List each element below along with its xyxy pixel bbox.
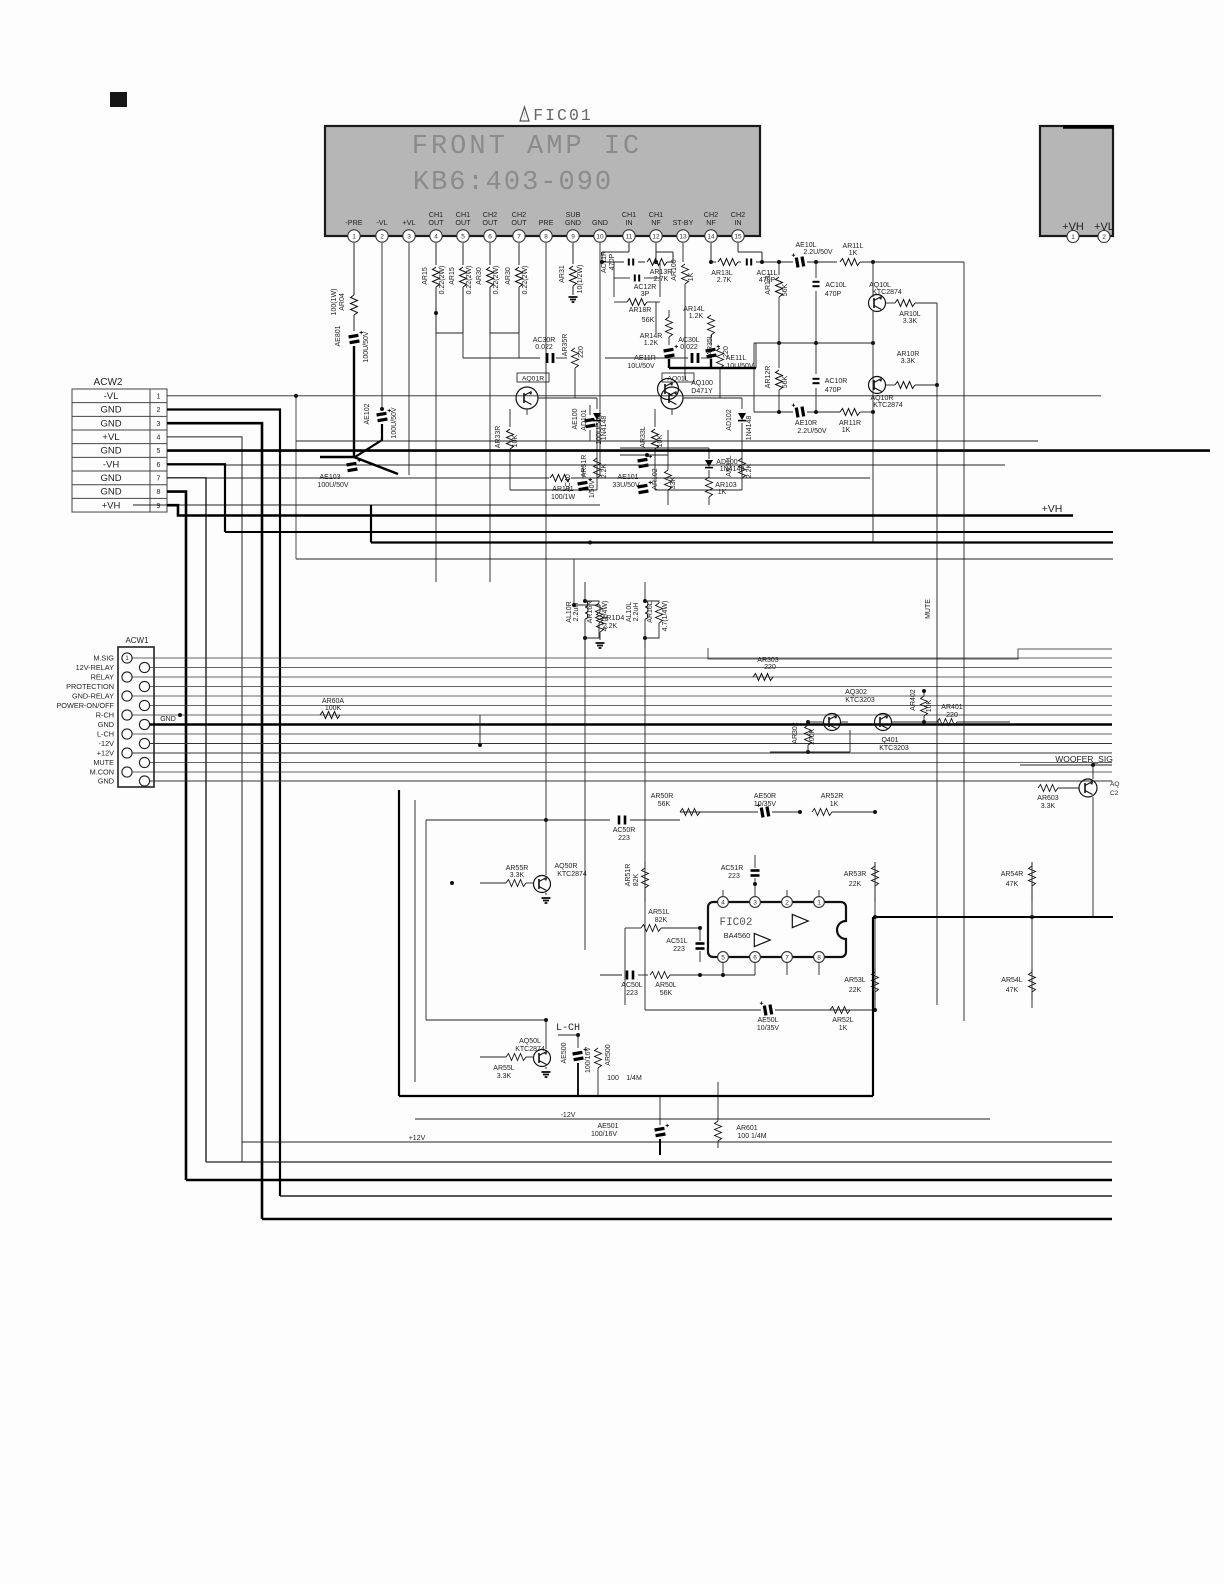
svg-text:PRE: PRE (539, 218, 554, 227)
svg-text:2.7K: 2.7K (717, 277, 732, 284)
svg-text:M.CON: M.CON (90, 768, 114, 777)
svg-text:1: 1 (817, 899, 821, 906)
svg-text:47K: 47K (1006, 881, 1019, 888)
svg-text:AR101: AR101 (552, 486, 574, 493)
svg-text:AR14R: AR14R (640, 333, 663, 340)
svg-text:AR303: AR303 (757, 657, 779, 664)
svg-text:AE103: AE103 (319, 474, 340, 481)
svg-text:AR55R: AR55R (506, 865, 529, 872)
svg-text:+VH: +VH (1042, 503, 1063, 515)
svg-text:MUTE: MUTE (925, 599, 932, 619)
svg-text:AR102: AR102 (652, 468, 659, 490)
svg-text:AR402: AR402 (910, 689, 917, 711)
svg-text:0.022: 0.022 (535, 344, 553, 351)
svg-text:12: 12 (652, 233, 660, 240)
svg-text:4: 4 (434, 233, 438, 240)
svg-text:GND-RELAY: GND-RELAY (72, 692, 114, 701)
svg-text:-PRE: -PRE (345, 218, 362, 227)
svg-text:-VL: -VL (376, 218, 387, 227)
svg-text:IN: IN (734, 218, 741, 227)
svg-text:6: 6 (488, 233, 492, 240)
svg-text:GND: GND (100, 418, 121, 429)
svg-text:6: 6 (753, 954, 757, 961)
svg-text:223: 223 (626, 990, 638, 997)
svg-text:8: 8 (544, 233, 548, 240)
svg-text:AQ10L: AQ10L (869, 282, 891, 289)
svg-text:GND: GND (565, 218, 581, 227)
svg-text:82K: 82K (633, 873, 640, 886)
svg-text:AC12R: AC12R (634, 284, 657, 291)
svg-text:2.2K: 2.2K (601, 463, 608, 478)
svg-text:1.2K: 1.2K (644, 340, 659, 347)
svg-text:6: 6 (157, 462, 161, 469)
svg-text:100(1W): 100(1W) (331, 289, 338, 316)
svg-text:AQ100: AQ100 (691, 380, 713, 387)
svg-text:4: 4 (157, 434, 161, 441)
svg-text:470P: 470P (825, 387, 842, 394)
svg-text:L-CH: L-CH (97, 730, 114, 739)
svg-text:3.3K: 3.3K (901, 358, 916, 365)
svg-text:AE11L: AE11L (726, 355, 747, 362)
svg-text:100U/50V: 100U/50V (596, 413, 603, 444)
svg-text:GND: GND (100, 487, 121, 498)
svg-text:AC10R: AC10R (825, 378, 848, 385)
svg-text:L-CH: L-CH (556, 1023, 580, 1034)
svg-text:AR11L: AR11L (843, 243, 864, 250)
svg-text:R-CH: R-CH (96, 711, 114, 720)
svg-text:ACW2: ACW2 (94, 377, 123, 388)
svg-text:12V-RELAY: 12V-RELAY (76, 663, 115, 672)
svg-text:22K: 22K (849, 987, 862, 994)
svg-text:220: 220 (578, 346, 585, 358)
svg-text:100 1/4M: 100 1/4M (737, 1133, 766, 1140)
svg-text:AR16R: AR16R (587, 601, 594, 624)
svg-text:AL10R: AL10R (566, 601, 573, 622)
svg-text:10(1/2W): 10(1/2W) (577, 265, 584, 294)
svg-text:7: 7 (157, 475, 161, 482)
svg-text:KB6:403-090: KB6:403-090 (413, 168, 613, 198)
svg-text:OUT: OUT (482, 218, 498, 227)
svg-text:OUT: OUT (455, 218, 471, 227)
svg-text:NF: NF (651, 218, 661, 227)
svg-text:KTC2874: KTC2874 (557, 871, 587, 878)
svg-text:4.7(1/4W): 4.7(1/4W) (662, 601, 669, 632)
svg-text:2.2U/50V: 2.2U/50V (797, 428, 827, 435)
svg-text:2.2K: 2.2K (603, 623, 618, 630)
svg-text:AE50R: AE50R (754, 793, 776, 800)
svg-text:AR60A: AR60A (322, 698, 345, 705)
svg-text:AC51R: AC51R (721, 865, 744, 872)
svg-text:GND: GND (160, 716, 176, 723)
svg-text:1K: 1K (839, 1025, 848, 1032)
svg-text:AC50L: AC50L (621, 982, 643, 989)
svg-text:+12V: +12V (97, 749, 114, 758)
svg-text:100/16V: 100/16V (591, 1131, 617, 1138)
svg-text:AQ50R: AQ50R (555, 863, 578, 870)
svg-text:15: 15 (734, 233, 742, 240)
svg-text:1K: 1K (688, 272, 695, 281)
svg-text:56K: 56K (782, 375, 789, 388)
svg-text:56K: 56K (660, 990, 673, 997)
svg-text:AE10R: AE10R (795, 420, 817, 427)
svg-text:0.22(2W): 0.22(2W) (439, 266, 446, 295)
svg-text:+VH: +VH (102, 500, 121, 511)
svg-text:3.3K: 3.3K (903, 318, 918, 325)
svg-text:AR35L: AR35L (707, 334, 714, 356)
svg-text:47K: 47K (1006, 987, 1019, 994)
svg-text:1N4148: 1N4148 (746, 416, 753, 441)
svg-text:ST-BY: ST-BY (673, 218, 694, 227)
svg-text:AR13L: AR13L (711, 270, 733, 277)
svg-text:1: 1 (1071, 234, 1075, 241)
svg-text:AR10R: AR10R (897, 351, 920, 358)
svg-text:AR04: AR04 (339, 293, 346, 311)
svg-text:AR53L: AR53L (844, 977, 866, 984)
svg-text:WOOFER_SIG: WOOFER_SIG (1055, 754, 1113, 764)
svg-text:AE102: AE102 (364, 403, 371, 424)
svg-text:AR14L: AR14L (683, 306, 705, 313)
svg-text:FIC02: FIC02 (719, 917, 752, 929)
svg-text:AR12R: AR12R (765, 366, 772, 389)
svg-text:11: 11 (626, 233, 633, 240)
svg-text:8: 8 (817, 954, 821, 961)
svg-text:2: 2 (380, 233, 384, 240)
svg-text:1K: 1K (830, 801, 839, 808)
svg-text:GND: GND (592, 218, 608, 227)
svg-text:AR35R: AR35R (562, 334, 569, 357)
svg-text:14: 14 (707, 233, 715, 240)
svg-text:AC50R: AC50R (613, 827, 636, 834)
svg-text:10: 10 (596, 233, 604, 240)
svg-text:100/1W: 100/1W (551, 494, 576, 501)
svg-text:OUT: OUT (511, 218, 527, 227)
svg-text:AE801: AE801 (335, 325, 342, 346)
svg-text:AR33L: AR33L (640, 426, 647, 448)
svg-text:3: 3 (753, 899, 757, 906)
svg-text:FIC01: FIC01 (533, 106, 593, 125)
svg-text:KTC2874: KTC2874 (872, 289, 902, 296)
svg-text:2: 2 (1102, 234, 1106, 241)
svg-text:AR55L: AR55L (493, 1065, 515, 1072)
svg-text:AR500: AR500 (605, 1044, 612, 1066)
svg-text:AR54R: AR54R (1001, 871, 1024, 878)
svg-text:10U/50V: 10U/50V (627, 363, 655, 370)
svg-text:220: 220 (764, 664, 776, 671)
svg-text:AR601: AR601 (736, 1125, 758, 1132)
svg-text:9: 9 (571, 233, 575, 240)
svg-text:AR15: AR15 (449, 267, 456, 285)
svg-text:470P: 470P (609, 254, 616, 271)
svg-text:+12V: +12V (409, 1135, 426, 1142)
svg-text:AE101: AE101 (617, 474, 638, 481)
svg-text:1.2K: 1.2K (689, 313, 704, 320)
svg-text:AR51L: AR51L (648, 909, 670, 916)
svg-text:AR31R: AR31R (581, 455, 588, 478)
svg-text:AR103: AR103 (715, 482, 737, 489)
svg-text:223: 223 (673, 946, 685, 953)
svg-text:KTC3203: KTC3203 (879, 745, 909, 752)
svg-text:AC51L: AC51L (666, 938, 688, 945)
svg-text:100K: 100K (809, 729, 816, 746)
svg-text:AR52R: AR52R (821, 793, 844, 800)
svg-text:AR31: AR31 (559, 265, 566, 283)
svg-text:+VL: +VL (102, 432, 119, 443)
svg-text:AR12L: AR12L (765, 273, 772, 295)
svg-text:56K: 56K (782, 283, 789, 296)
svg-text:AR1D4: AR1D4 (602, 615, 625, 622)
svg-text:AR33R: AR33R (495, 426, 502, 449)
svg-text:AR52L: AR52L (832, 1017, 854, 1024)
svg-text:BA4560: BA4560 (724, 931, 751, 940)
svg-text:100U/50V: 100U/50V (363, 331, 370, 362)
svg-text:AR10L: AR10L (899, 311, 921, 318)
svg-text:AC10L: AC10L (825, 282, 847, 289)
svg-text:10/35V: 10/35V (754, 801, 777, 808)
svg-text:AR30: AR30 (505, 267, 512, 285)
svg-text:AR603: AR603 (1037, 795, 1059, 802)
svg-text:1K: 1K (718, 489, 727, 496)
svg-text:2: 2 (157, 407, 161, 414)
svg-text:AR302: AR302 (792, 722, 799, 744)
svg-text:AE501: AE501 (597, 1123, 618, 1130)
svg-text:AE100: AE100 (572, 408, 579, 429)
svg-text:AR30: AR30 (476, 267, 483, 285)
svg-text:1N4148: 1N4148 (720, 466, 745, 473)
svg-text:KTC3203: KTC3203 (845, 697, 875, 704)
svg-text:3: 3 (407, 233, 411, 240)
svg-text:Q401: Q401 (881, 737, 898, 744)
svg-text:AQ: AQ (1110, 781, 1119, 788)
svg-text:AR54L: AR54L (1001, 977, 1023, 984)
svg-text:0.22(2W): 0.22(2W) (493, 266, 500, 295)
svg-text:100U/50V: 100U/50V (391, 407, 398, 438)
svg-text:220: 220 (946, 712, 958, 719)
svg-text:0.22(2W): 0.22(2W) (522, 266, 529, 295)
svg-text:AC30R: AC30R (533, 337, 556, 344)
svg-text:+VL: +VL (403, 218, 416, 227)
svg-text:1/4M: 1/4M (626, 1075, 642, 1082)
svg-text:0.22(2W): 0.22(2W) (466, 266, 473, 295)
svg-text:2.7K: 2.7K (654, 276, 669, 283)
svg-text:13: 13 (679, 233, 687, 240)
svg-text:4: 4 (721, 899, 725, 906)
svg-text:MUTE: MUTE (93, 758, 114, 767)
svg-text:ACW1: ACW1 (125, 636, 149, 645)
svg-text:AR401: AR401 (941, 704, 963, 711)
svg-text:AE10L: AE10L (795, 242, 816, 249)
svg-text:-VH: -VH (103, 459, 120, 470)
svg-text:2.2uH: 2.2uH (633, 603, 640, 622)
svg-text:5: 5 (461, 233, 465, 240)
svg-text:100: 100 (607, 1075, 619, 1082)
svg-text:-VL: -VL (104, 391, 119, 402)
svg-text:AQ302: AQ302 (845, 689, 867, 696)
svg-text:3: 3 (157, 421, 161, 428)
svg-text:IN: IN (625, 218, 632, 227)
svg-text:33U/50V: 33U/50V (612, 482, 640, 489)
svg-text:AR53R: AR53R (844, 871, 867, 878)
svg-text:2.2K: 2.2K (746, 463, 753, 478)
svg-text:M.SIG: M.SIG (93, 654, 114, 663)
svg-text:1K: 1K (842, 427, 851, 434)
svg-text:AR18R: AR18R (629, 307, 652, 314)
svg-text:GND: GND (98, 777, 114, 786)
svg-text:AE11R: AE11R (634, 355, 656, 362)
svg-text:NF: NF (706, 218, 716, 227)
svg-text:100/16V: 100/16V (585, 1047, 592, 1073)
svg-text:223: 223 (618, 835, 630, 842)
svg-text:22K: 22K (849, 881, 862, 888)
svg-text:3.3K: 3.3K (510, 872, 525, 879)
svg-text:AR51R: AR51R (625, 864, 632, 887)
svg-text:GND: GND (100, 446, 121, 457)
svg-text:AQ01R: AQ01R (522, 376, 544, 383)
svg-text:56K: 56K (642, 315, 655, 324)
svg-text:7: 7 (785, 954, 789, 961)
svg-text:AR13R: AR13R (650, 269, 673, 276)
svg-text:-12V: -12V (561, 1112, 576, 1119)
svg-text:7: 7 (517, 233, 521, 240)
svg-text:GND: GND (100, 473, 121, 484)
svg-text:AR15: AR15 (422, 267, 429, 285)
svg-text:3P: 3P (641, 291, 650, 298)
svg-text:C2: C2 (1110, 790, 1119, 797)
svg-text:FRONT AMP IC: FRONT AMP IC (412, 132, 642, 162)
svg-text:AR16L: AR16L (647, 601, 654, 623)
svg-text:AR11R: AR11R (839, 420, 861, 427)
svg-text:AD102: AD102 (726, 409, 733, 431)
svg-text:GND: GND (100, 405, 121, 416)
svg-text:56K: 56K (658, 801, 671, 808)
svg-text:10K: 10K (926, 699, 933, 712)
svg-text:8: 8 (157, 489, 161, 496)
svg-text:POWER-ON/OFF: POWER-ON/OFF (56, 701, 114, 710)
svg-text:5: 5 (721, 954, 725, 961)
svg-text:GND: GND (98, 720, 114, 729)
svg-text:100K: 100K (325, 705, 342, 712)
svg-text:10/35V: 10/35V (757, 1025, 780, 1032)
svg-text:KTC2874: KTC2874 (873, 402, 903, 409)
svg-text:AE50L: AE50L (757, 1017, 778, 1024)
svg-text:3.3K: 3.3K (1041, 803, 1056, 810)
svg-text:0.022: 0.022 (680, 344, 698, 351)
svg-text:3.3K: 3.3K (497, 1073, 512, 1080)
svg-text:1: 1 (157, 393, 161, 400)
svg-text:OUT: OUT (428, 218, 444, 227)
svg-text:AR50R: AR50R (651, 793, 674, 800)
svg-text:5: 5 (157, 448, 161, 455)
svg-text:223: 223 (728, 873, 740, 880)
svg-text:PROTECTION: PROTECTION (66, 682, 114, 691)
svg-text:AC30L: AC30L (678, 337, 700, 344)
svg-text:KTC2874: KTC2874 (515, 1046, 545, 1053)
svg-text:AE500: AE500 (561, 1042, 568, 1063)
svg-text:1K: 1K (849, 250, 858, 257)
svg-text:AQ50L: AQ50L (519, 1038, 541, 1045)
svg-text:AR50L: AR50L (655, 982, 677, 989)
svg-text:82K: 82K (655, 917, 668, 924)
svg-text:RELAY: RELAY (91, 673, 115, 682)
svg-text:AL10L: AL10L (626, 602, 633, 622)
svg-text:1: 1 (352, 233, 356, 240)
svg-text:D471Y: D471Y (691, 388, 713, 395)
svg-text:9: 9 (157, 503, 161, 510)
svg-text:2.2U/50V: 2.2U/50V (803, 249, 833, 256)
svg-text:470P: 470P (825, 291, 842, 298)
svg-text:2: 2 (785, 899, 789, 906)
svg-text:-12V: -12V (99, 739, 115, 748)
svg-text:100U/50V: 100U/50V (317, 482, 348, 489)
svg-text:1/50V: 1/50V (589, 480, 596, 499)
